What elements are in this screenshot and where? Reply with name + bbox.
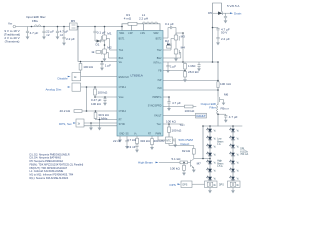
capacitor 1uF VOUT [166, 62, 169, 70]
svg-text:(Transient): (Transient) [5, 39, 20, 43]
ground right string [231, 188, 235, 194]
svg-text:Filter: Filter [209, 105, 216, 109]
svg-text:4.7 µF: 4.7 µF [30, 31, 39, 35]
transistor M6 PWM dim [218, 96, 224, 103]
svg-text:LT8391A: LT8391A [131, 73, 144, 77]
capacitor C3 4.7uF [56, 27, 59, 37]
junction at 95.5,111 [95, 110, 97, 112]
junction at 78,26.5 [77, 26, 79, 28]
svg-text:VL: VL [237, 155, 240, 157]
LED L7 [207, 176, 217, 181]
svg-text:M2: M2 [107, 45, 112, 49]
ground [192, 170, 196, 173]
junction at 64,26.5 [63, 26, 65, 28]
diode D1 [95, 39, 105, 46]
svg-text:VL: VL [214, 163, 217, 165]
terminal VIN [4, 21, 21, 43]
capacitor bootstrap 0.1uF left [93, 27, 96, 42]
junction at 184,162.4 [183, 162, 185, 164]
junction at 183,33 [182, 32, 184, 34]
wire CTRL1 to CTRL2 vertical [86, 87, 88, 111]
resistor network RL2 [228, 181, 241, 188]
capacitor C1 4.7uF [26, 27, 29, 37]
svg-text:VL: VL [214, 139, 217, 141]
junction at 183,62 [182, 61, 184, 63]
svg-text:RL: RL [214, 185, 217, 187]
LED R1 [230, 128, 240, 133]
resistor 30.9k RT [94, 111, 109, 121]
junction at 210,126 [209, 125, 211, 127]
svg-text:100 kΩ: 100 kΩ [83, 65, 93, 69]
notes [30, 152, 84, 180]
LED R6 [230, 168, 240, 173]
junction at 91,123 [90, 122, 92, 124]
svg-text:TG1: TG1 [119, 50, 124, 52]
junction at 95,97 [94, 96, 96, 98]
junction at 104.5,26.5 [104, 26, 106, 28]
ground [182, 173, 186, 176]
resistor 28k FB [184, 71, 187, 79]
svg-text:700 mA: 700 mA [240, 153, 248, 156]
junction at 104.5,45 [104, 44, 106, 46]
svg-text:1k: 1k [167, 41, 171, 45]
connector DPS Set [59, 119, 84, 127]
svg-text:400 kHz: 400 kHz [154, 139, 166, 143]
wire bypass [203, 126, 210, 159]
transistor M2 [101, 40, 117, 59]
junction at 86.5,111 [86, 110, 88, 112]
svg-text:CTRL2: CTRL2 [119, 111, 127, 113]
transistor M5 reverse protection [70, 19, 78, 30]
wire EN/UVLO line [81, 76, 117, 78]
LED L5 [207, 160, 217, 165]
wire CTRL1 line [81, 86, 117, 88]
ground [216, 42, 220, 45]
thermistor NTC [166, 137, 173, 144]
svg-text:8 LEDs: 8 LEDs [240, 151, 248, 153]
resistor 82k [192, 149, 195, 155]
svg-text:M7: M7 [197, 162, 202, 166]
svg-text:DPS: DPS [183, 185, 188, 187]
IC U1 LT8391A [117, 31, 163, 137]
junction at 203,126 [202, 125, 204, 127]
svg-text:DPS: DPS [170, 183, 176, 187]
svg-text:ISP: ISP [158, 80, 162, 82]
wire DPS ground drop [90, 123, 92, 128]
LED R4 [230, 152, 240, 157]
svg-text:VL: VL [214, 171, 217, 173]
wire CTRL2 line [74, 110, 117, 112]
wire string rail [203, 125, 242, 127]
svg-text:5 V/0.5 A: 5 V/0.5 A [227, 4, 240, 8]
wire inductor loop top [122, 23, 160, 25]
ground [100, 68, 104, 71]
ground [135, 150, 139, 153]
wire ISP line [163, 80, 218, 82]
svg-text:VL: VL [214, 131, 217, 133]
svg-text:VL: VL [237, 171, 240, 173]
svg-text:BST2: BST2 [156, 38, 163, 40]
svg-text:PWMTG: PWMTG [152, 97, 161, 99]
resistor 4.7k VC [135, 136, 138, 150]
svg-text:SYNC: SYNC [119, 124, 126, 126]
junction at 44,26.5 [43, 26, 45, 28]
capacitor 4.7uF LED rail [218, 114, 227, 120]
LED string right [230, 128, 249, 181]
resistor RS 100mohm [217, 82, 232, 88]
svg-text:332 kΩ: 332 kΩ [140, 139, 150, 143]
ground [224, 20, 228, 23]
svg-text:100 kΩ: 100 kΩ [172, 128, 182, 132]
wire RT ground drop [99, 120, 101, 128]
svg-text:VL: VL [214, 147, 217, 149]
wire SYNC line [80, 125, 117, 127]
ground [118, 140, 122, 143]
inductor L1 [139, 13, 158, 24]
junction at 122,26.5 [121, 26, 123, 28]
svg-text:VL: VL [214, 179, 217, 181]
svg-text:DPS: DPS [219, 184, 224, 186]
svg-text:M6: M6 [224, 93, 229, 97]
resistor 100k EN pullup [79, 62, 82, 77]
svg-text:SW1: SW1 [119, 33, 125, 35]
svg-text:DPS, Set: DPS, Set [59, 122, 72, 126]
wire VIN pin feed [78, 27, 117, 62]
transistor M1 [101, 27, 117, 51]
wire FB line [163, 70, 185, 72]
ferrite bead FBIN [26, 15, 46, 26]
wire VOUT node riser [182, 33, 184, 62]
svg-text:4.7 µF: 4.7 µF [229, 115, 238, 119]
svg-text:VL: VL [237, 147, 240, 149]
resistor 100k CTRL1-VREF [94, 87, 97, 97]
svg-text:1 µF: 1 µF [105, 63, 111, 67]
svg-text:RL: RL [237, 185, 240, 187]
svg-text:1k: 1k [91, 50, 95, 54]
junction at 80.5,61.5 [80, 61, 82, 63]
junction at 218,114.2 [217, 113, 219, 115]
svg-text:GND: GND [119, 134, 124, 136]
svg-text:2.2 µF: 2.2 µF [221, 37, 230, 41]
capacitor bootstrap right 0.1uF [163, 26, 176, 38]
svg-text:M5: M5 [71, 19, 76, 23]
wire VREF line [95, 96, 117, 98]
svg-text:FAULT: FAULT [197, 114, 206, 118]
LED L6 [207, 168, 217, 173]
connector Analog Dim [46, 83, 81, 91]
svg-text:100 mΩ: 100 mΩ [220, 82, 231, 86]
svg-text:Low: Low [217, 139, 222, 141]
connector DPS box [170, 181, 205, 188]
svg-text:1 µF: 1 µF [170, 64, 176, 68]
svg-text:5.1 kΩ: 5.1 kΩ [172, 157, 182, 161]
svg-text:×2: ×2 [60, 33, 64, 37]
net 50% PWM Detect [179, 138, 194, 146]
junction at 105,97 [104, 96, 106, 98]
ground [174, 59, 178, 62]
svg-text:VL: VL [237, 139, 240, 141]
capacitor 0.47uF VREF [103, 97, 106, 103]
wire LSN stub [143, 24, 145, 31]
resistor 1k gate M4 [167, 41, 172, 48]
svg-text:VL: VL [237, 131, 240, 133]
svg-text:2.2 µH: 2.2 µH [139, 17, 148, 21]
svg-text:High: High [217, 161, 222, 163]
wire NTC riser [168, 124, 170, 127]
junction at 185,70.5 [184, 70, 186, 72]
svg-text:M1: M1 [107, 31, 112, 35]
svg-text:Drain: Drain [234, 11, 242, 15]
resistor 1k gate [91, 50, 100, 54]
ground [98, 128, 102, 131]
svg-text:BST1: BST1 [119, 38, 126, 40]
svg-text:Analog Dim: Analog Dim [46, 87, 62, 91]
svg-text:40.2 kΩ: 40.2 kΩ [60, 109, 71, 113]
resistor 40.2k [60, 109, 83, 113]
ground [103, 59, 107, 62]
svg-text:Disable: Disable [58, 76, 68, 80]
svg-text:22 nF: 22 nF [113, 139, 121, 143]
svg-text:INTVCC: INTVCC [153, 63, 162, 65]
svg-text:28.0 kΩ: 28.0 kΩ [188, 70, 199, 74]
LED L2 [207, 136, 217, 141]
capacitor C2 22uF [42, 27, 45, 37]
capacitor INTVCC small [197, 62, 200, 68]
LED R7 [230, 176, 240, 181]
wire output column [217, 62, 219, 82]
LED R3 [230, 144, 240, 149]
svg-text:SW2: SW2 [153, 33, 159, 35]
svg-text:DRL: DRL [240, 149, 245, 151]
svg-text:CTRL1: CTRL1 [119, 87, 127, 89]
svg-text:100 kΩ: 100 kΩ [98, 90, 108, 94]
svg-text:EN/UVLO: EN/UVLO [119, 77, 129, 79]
svg-text:R(L): Susumu KRL3216E-M-R024: R(L): Susumu KRL3216E-M-R024 [30, 176, 69, 180]
wire left string [209, 126, 211, 181]
wire VOUT rail [163, 3, 222, 62]
LED L3 [207, 144, 217, 149]
junction at 203,158.5 [202, 158, 204, 160]
ground [89, 128, 93, 131]
svg-text:ISN: ISN [158, 88, 162, 90]
svg-text:TG2: TG2 [157, 50, 162, 52]
svg-text:NTC: NTC [166, 141, 171, 143]
svg-text:2.2 µF: 2.2 µF [66, 37, 75, 41]
capacitor 4.7uF fault [167, 101, 170, 108]
ground [224, 120, 228, 123]
svg-text:VREF: VREF [119, 97, 125, 99]
junction at 212.5,27.5 [212, 27, 214, 29]
transistor M4 [163, 40, 181, 59]
svg-text:High Beam: High Beam [138, 161, 154, 165]
svg-text:100 kΩ: 100 kΩ [91, 102, 101, 106]
wire SW1 riser [121, 24, 123, 31]
svg-text:BG2: BG2 [157, 58, 162, 60]
svg-text:100 kΩ: 100 kΩ [170, 167, 180, 171]
svg-text:LSN: LSN [140, 33, 145, 35]
wire ISN line [163, 89, 218, 91]
resistor 5.1k [159, 161, 180, 163]
junction at 212.5,62 [212, 61, 214, 63]
junction at 95,87 [94, 86, 96, 88]
svg-text:VL: VL [237, 179, 240, 181]
wire SW2 riser [159, 24, 161, 31]
resistor 100k bottom [151, 136, 154, 147]
ferrite bead FBOUT [201, 102, 230, 114]
svg-text:100 kΩ: 100 kΩ [166, 120, 176, 124]
svg-text:1 MΩ: 1 MΩ [188, 64, 196, 68]
diode D5 bias [208, 4, 241, 15]
IC bottom: ground pin [119, 136, 121, 140]
wire FAULT pin stub [163, 97, 169, 101]
junction at 95,26.5 [94, 26, 96, 28]
capacitor SS 22nF [125, 136, 128, 146]
capacitor 4.7uF 50V output [212, 28, 220, 43]
transistor M3 [163, 33, 183, 50]
junction at 218,90 [217, 89, 219, 91]
transistor M7 [191, 158, 194, 170]
junction at 218,62 [217, 61, 219, 63]
ground left string [208, 188, 212, 194]
resistor 1M FB [184, 62, 187, 71]
wire RT line [96, 119, 118, 121]
svg-text:PWM: PWM [156, 134, 162, 136]
svg-text:D5: D5 [208, 11, 212, 15]
ground [62, 43, 66, 46]
junction at 31.5,26.5 [31, 26, 33, 28]
svg-text:4.7 kΩ: 4.7 kΩ [127, 138, 137, 142]
junction at 99.5,119.5 [99, 119, 101, 121]
wire DPS line [84, 122, 117, 124]
wire TSET line [163, 123, 183, 125]
resistor 100k base [183, 162, 185, 165]
ground [167, 108, 171, 111]
ground [166, 70, 170, 73]
ground [183, 79, 187, 82]
junction at 233,126 [232, 125, 234, 127]
svg-text:1.5 A: 1.5 A [217, 165, 223, 168]
ground [150, 147, 154, 150]
LED R2 [230, 136, 240, 141]
diode D2 [165, 39, 171, 46]
svg-text:4 mΩ: 4 mΩ [124, 17, 132, 21]
svg-text:82 kΩ: 82 kΩ [182, 149, 191, 153]
svg-text:100 kΩ: 100 kΩ [185, 109, 195, 113]
ground [103, 103, 107, 106]
LED R5 [230, 160, 240, 165]
svg-text:4.7 µF: 4.7 µF [172, 101, 181, 105]
svg-text:FB: FB [158, 71, 161, 73]
svg-text:Detect: Detect [181, 142, 190, 146]
svg-text:1 A: 1 A [217, 143, 221, 146]
capacitor C4 2.2uF [62, 27, 65, 43]
svg-text:D1: D1 [96, 42, 100, 46]
wire collector to bypass [194, 158, 203, 160]
wire pullup line [163, 106, 196, 108]
svg-text:3.3 nF: 3.3 nF [127, 145, 136, 149]
svg-text:Beam: Beam [217, 141, 223, 143]
resistor 100k pullup [185, 105, 195, 113]
svg-text:VL: VL [214, 155, 217, 157]
junction at 102,61.5 [101, 61, 103, 63]
svg-text:×2: ×2 [46, 33, 50, 37]
wire right string [232, 126, 234, 181]
wire FAULT net line [163, 115, 196, 117]
svg-text:0.1 µF: 0.1 µF [165, 22, 174, 26]
svg-text:SS: SS [126, 134, 130, 136]
ground [56, 37, 60, 40]
svg-text:VL: VL [237, 163, 240, 165]
svg-text:BG1: BG1 [119, 58, 124, 60]
high beam control [138, 144, 203, 176]
svg-text:LSP: LSP [128, 33, 133, 35]
capacitor 1uF EN [100, 62, 103, 68]
wire LSP stub [131, 24, 133, 31]
resistor 100k tset2 [168, 127, 182, 132]
junction at 169,97 [168, 96, 170, 98]
wire PWM pin stub [158, 136, 166, 140]
net FAULT [196, 113, 207, 118]
junction at 169,124 [168, 123, 170, 125]
svg-text:50 V: 50 V [221, 31, 228, 35]
junction at 218,80.5 [217, 80, 219, 82]
junction at 57.5,26.5 [57, 26, 59, 28]
junction at 210,158.5 [209, 158, 211, 160]
ground [125, 146, 129, 149]
resistor network RL1 [205, 181, 218, 188]
ground [197, 68, 201, 71]
capacitor PWM detect [173, 138, 176, 144]
junction at 86.5,87 [86, 86, 88, 88]
svg-text:FAULT: FAULT [154, 115, 162, 118]
wire input rail [16, 26, 122, 28]
ground [42, 37, 46, 40]
resistor R1 4mohm [124, 13, 137, 25]
connector Disable [58, 73, 81, 81]
LED L1 [207, 128, 217, 133]
ground [26, 37, 30, 40]
capacitor bias [224, 13, 227, 20]
LED string left [207, 128, 224, 181]
svg-text:SYNC/SPRD: SYNC/SPRD [148, 106, 162, 108]
LED L4 [207, 152, 217, 157]
svg-text:Beam: Beam [217, 163, 223, 165]
